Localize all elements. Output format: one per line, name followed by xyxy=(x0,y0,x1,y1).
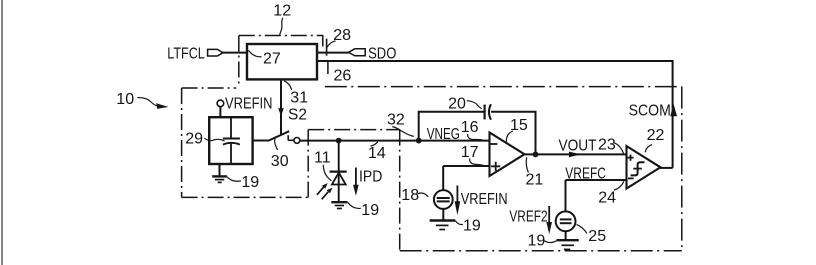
S2 control arrowhead xyxy=(278,108,284,116)
op-amp U15 xyxy=(490,133,525,177)
connector pad LTFCL xyxy=(208,49,223,56)
leader 19 photodiode xyxy=(348,202,361,208)
leader 24 xyxy=(614,181,624,190)
svg-text:24: 24 xyxy=(598,189,616,206)
svg-text:VREFIN: VREFIN xyxy=(461,191,508,209)
svg-text:SDO: SDO xyxy=(368,45,396,63)
wire switch to op-amp inverting input xyxy=(300,140,490,142)
svg-text:LTFCL: LTFCL xyxy=(167,45,204,63)
wire U27 to SDO xyxy=(317,52,349,54)
svg-text:19: 19 xyxy=(463,218,481,235)
box 32 left edge xyxy=(399,130,401,251)
leader 20 xyxy=(467,101,482,109)
svg-text:27: 27 xyxy=(263,51,281,68)
comparator plus xyxy=(628,155,634,161)
svg-text:15: 15 xyxy=(510,117,528,134)
labels: reference numerals xyxy=(116,3,664,250)
leader 14 xyxy=(371,142,378,146)
capacitor C20 xyxy=(485,104,491,120)
switch fixed contact xyxy=(288,135,294,140)
capacitor inside box 29 xyxy=(223,117,240,164)
VREFIN terminal circle xyxy=(217,100,224,107)
IPD current arrow xyxy=(355,168,357,187)
source 25 (VREF2) xyxy=(556,211,576,231)
svg-text:32: 32 xyxy=(387,112,405,129)
ground 19 under box29 xyxy=(212,176,227,182)
switch contact circle 30 xyxy=(294,138,300,144)
box 10 top xyxy=(182,87,237,89)
VREFIN direction arrow xyxy=(456,186,458,204)
leader 21 xyxy=(526,157,528,172)
svg-text:28: 28 xyxy=(333,27,351,44)
svg-text:22: 22 xyxy=(647,127,665,144)
svg-text:18: 18 xyxy=(401,187,419,204)
tick 28 xyxy=(326,39,328,56)
comparator U22 xyxy=(627,146,661,189)
svg-text:VOUT: VOUT xyxy=(559,138,597,155)
svg-text:26: 26 xyxy=(334,67,352,84)
leader 16 xyxy=(468,134,484,140)
leader 19 box29 xyxy=(227,177,241,181)
ground 19 under source 25 xyxy=(557,240,579,249)
box 32 right xyxy=(681,87,683,251)
leader 26 xyxy=(327,61,329,74)
leader 27 xyxy=(248,50,261,57)
svg-text:SCOM: SCOM xyxy=(629,102,671,120)
leader 12 xyxy=(280,18,283,35)
svg-text:21: 21 xyxy=(526,172,544,189)
wire source25 to ground xyxy=(565,231,567,239)
wire box29 to switch xyxy=(253,140,268,142)
svg-text:VREFC: VREFC xyxy=(565,164,606,182)
box 12 top xyxy=(239,35,323,37)
wire op-amp noninverting input xyxy=(443,166,489,190)
junction node VNEG xyxy=(416,138,422,144)
box 10 bottom xyxy=(182,196,309,198)
page border xyxy=(1,0,3,265)
box 10 left xyxy=(181,88,183,197)
block 29 (capacitor box) xyxy=(209,117,252,164)
svg-text:VREF2: VREF2 xyxy=(509,207,547,225)
svg-text:11: 11 xyxy=(314,150,331,167)
svg-text:10: 10 xyxy=(116,91,134,108)
VOUT arrow xyxy=(569,152,581,158)
wire VREFIN terminal to box29 xyxy=(219,107,221,118)
light arrows into photodiode xyxy=(317,183,333,199)
op-amp minus xyxy=(490,143,497,145)
wire box29 to ground xyxy=(219,164,221,176)
svg-text:31: 31 xyxy=(290,89,308,106)
wire feedback loop right to output xyxy=(491,112,536,155)
leader 18 xyxy=(418,193,429,197)
wire node14 through photodiode to ground xyxy=(338,141,340,202)
svg-text:29: 29 xyxy=(185,131,203,148)
junction node 14 xyxy=(336,138,342,144)
wire feedback loop left riser xyxy=(419,112,484,141)
ground 19 under photodiode xyxy=(331,202,347,208)
svg-text:19: 19 xyxy=(241,174,259,191)
box 32 bottom xyxy=(400,250,682,252)
wire 26 net (U27 to comparator output, right side) xyxy=(317,61,673,168)
photodiode D11 xyxy=(330,172,347,185)
leader 19 source18 xyxy=(455,221,463,225)
block U27 xyxy=(247,44,317,79)
svg-text:16: 16 xyxy=(461,119,479,136)
labels: signal names (condensed) xyxy=(167,45,671,225)
wire op-amp output to comparator xyxy=(524,153,627,155)
leader 30 xyxy=(275,137,278,150)
leader 31 xyxy=(284,81,292,90)
box 32 upper-left horizontal xyxy=(308,129,400,131)
dash-dot outlines xyxy=(182,36,682,251)
leader 28 xyxy=(327,41,335,47)
svg-text:19: 19 xyxy=(528,233,546,250)
svg-text:30: 30 xyxy=(271,153,289,170)
leader 32 xyxy=(392,127,414,137)
VREF2 direction arrow xyxy=(548,206,550,224)
svg-text:12: 12 xyxy=(273,3,291,20)
svg-text:VNEG: VNEG xyxy=(427,124,460,142)
svg-text:S2: S2 xyxy=(288,106,307,123)
box 12 right stub xyxy=(322,36,324,47)
svg-text:23: 23 xyxy=(598,137,616,154)
box 12 left xyxy=(238,36,240,88)
SCOM arrowhead xyxy=(670,104,677,116)
leader lines xyxy=(137,18,652,243)
svg-text:20: 20 xyxy=(448,96,466,113)
svg-text:IPD: IPD xyxy=(359,168,383,186)
wire VREFC xyxy=(566,180,627,212)
leader 11 xyxy=(323,165,331,181)
op-amp plus xyxy=(491,162,500,171)
wire comparator output xyxy=(660,167,673,169)
wire S2 control from U27 xyxy=(280,79,282,135)
svg-text:19: 19 xyxy=(361,202,379,219)
svg-text:25: 25 xyxy=(588,228,606,245)
leader 22 xyxy=(645,145,652,153)
svg-text:VREFIN: VREFIN xyxy=(225,96,272,114)
svg-text:17: 17 xyxy=(461,144,479,161)
leader 10 arrow xyxy=(137,98,157,106)
svg-text:14: 14 xyxy=(368,145,386,162)
leader 25 xyxy=(577,224,587,233)
ground 19 under source 18 xyxy=(430,221,456,230)
leader 15 xyxy=(506,131,512,142)
comparator hysteresis symbol xyxy=(631,162,645,175)
junction node VOUT xyxy=(533,152,539,158)
connector pad SDO xyxy=(349,49,366,56)
leader 29 xyxy=(205,138,225,141)
source 18 (VREFIN) xyxy=(434,190,453,209)
box 32 top long xyxy=(325,86,682,88)
wire source18 to ground xyxy=(442,209,444,220)
leader 19 source25 xyxy=(544,241,556,243)
switch S2 blade xyxy=(268,131,289,141)
leader 23 xyxy=(614,143,624,155)
leader 17 xyxy=(470,159,484,166)
wire LTFCL to U27 xyxy=(223,52,248,54)
box 10 right xyxy=(307,130,309,198)
comparator minus xyxy=(628,177,634,179)
